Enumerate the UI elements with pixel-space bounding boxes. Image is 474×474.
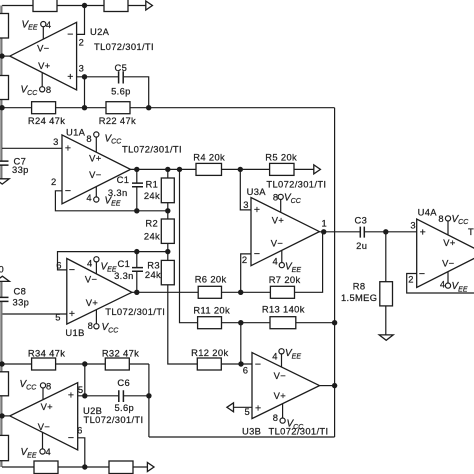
svg-text:3: 3 [79,63,84,74]
svg-text:TL072/301/TI: TL072/301/TI [84,414,144,425]
svg-text:5.6p: 5.6p [111,85,131,96]
svg-text:R6 20k: R6 20k [195,274,227,285]
wire U2A pin2 stub to top row [77,6,85,35]
wire outer right column [334,108,336,437]
resistor left edge 3 (cut off) [0,372,9,396]
svg-text:R8: R8 [353,281,366,292]
svg-text:3: 3 [53,136,58,147]
svg-text:4: 4 [87,258,92,269]
node R13 right on outer column [332,320,337,325]
svg-text:TL072/301/TI: TL072/301/TI [122,144,182,155]
svg-text:+: + [69,308,75,320]
node R11 R13 junction [238,320,243,325]
svg-text:TL072/301/TI: TL072/301/TI [105,306,165,317]
resistor R3 24k [161,260,174,284]
node U2A pin3 branch [82,74,87,79]
svg-text:1: 1 [321,218,326,229]
svg-text:C6: C6 [117,377,130,388]
svg-text:5: 5 [78,384,83,395]
resistor top row right (cut off) [104,0,128,12]
svg-text:8: 8 [46,84,51,95]
svg-text:V+: V+ [86,297,99,308]
node top row / U2A pin2 [82,3,87,8]
svg-text:2: 2 [408,273,413,284]
capacitor C8 33p plates [0,297,9,301]
svg-text:6: 6 [56,259,61,270]
svg-text:C1: C1 [117,174,130,185]
wire U3B output to outer column [320,385,335,387]
node C3 / R8 / U4A pin3 [383,229,388,234]
wire U2A pin3 down to R24 row [84,77,86,108]
output arrow after R5 [314,165,321,174]
svg-text:5: 5 [55,312,60,323]
svg-text:4: 4 [46,19,51,30]
node U1B output / C2 bottom [134,290,139,295]
op-amp U1A triangle [62,132,131,204]
svg-text:R13 140k: R13 140k [262,304,305,315]
svg-text:U1A: U1A [66,127,86,138]
svg-text:TL072/301/TI: TL072/301/TI [94,41,154,52]
node R24 R22 junction [82,105,87,110]
wire U2A apex to left column [2,55,10,57]
input arrow U3B pin5 [227,403,234,412]
svg-text:4: 4 [45,446,50,457]
wire R11 to R13 row [222,322,271,324]
resistor R22 47k [106,102,130,114]
ground under R8 [379,335,393,340]
resistor R24 47k [32,102,56,114]
wire left column lower segment [0,302,2,467]
node R2 R3 junction [165,249,170,254]
op-amp U2A triangle [10,22,77,92]
resistor left edge 1 (cut off) [0,14,9,39]
node U1A output / down column [177,167,182,172]
svg-text:8: 8 [46,380,51,391]
svg-text:2: 2 [79,37,84,48]
svg-text:33p: 33p [12,164,29,175]
wire U3A pin3 from R4 node [240,169,251,210]
svg-text:V+: V+ [89,153,102,164]
node U2B apex / left column [0,413,5,418]
wire U1B output row to R6 [132,291,198,293]
svg-text:4: 4 [86,192,91,203]
svg-text:R32 47k: R32 47k [102,348,139,359]
wire C1 column lower [136,187,138,211]
wire R4 to R5 [222,168,270,170]
resistor bottom row right (cut off) [109,461,133,474]
wire U3A output to C3 [319,231,360,233]
svg-text:TL072/301/TI: TL072/301/TI [269,425,329,436]
svg-text:V+: V+ [41,401,54,412]
svg-text:TL072/301/TI: TL072/301/TI [266,179,326,190]
op-amp U2B triangle [10,383,78,454]
ground under C7 [0,179,9,184]
resistor R13 140k [270,317,296,329]
svg-text:V−: V− [271,238,284,249]
svg-text:V−: V− [38,421,51,432]
svg-text:V+: V+ [272,215,285,226]
svg-text:−: − [69,264,75,276]
wire U3A pin2 loop to summing node [241,254,251,292]
svg-text:−: − [67,29,73,41]
svg-text:+: + [65,143,71,155]
wire R24 R22 row [2,107,335,109]
wire U1A output down to R11 [180,169,198,322]
node U1A output / C1 top [134,167,139,172]
wire R7 right up to U3A output [295,232,323,292]
svg-text:TL072/301/TI: TL072/301/TI [468,226,474,237]
wire R8 column upper [385,232,387,282]
wire U1A output row to R4 [131,168,197,170]
capacitor C6 5.6p plates [119,390,124,402]
svg-text:5.6p: 5.6p [114,402,134,413]
resistor R2 24k [161,219,174,243]
svg-text:8: 8 [438,213,443,224]
svg-text:24k: 24k [144,190,160,201]
node U2A apex / left column [0,53,5,58]
wire R8 column lower to ground [385,306,387,335]
svg-text:R24 47k: R24 47k [28,115,65,126]
resistor R5 20k [270,163,294,175]
inverted ground above C8 [0,276,9,281]
svg-text:24k: 24k [145,269,161,280]
wire U1A pin3 row [2,147,62,149]
svg-text:8: 8 [88,320,93,331]
svg-text:8: 8 [273,192,278,203]
wire C6 right to corner [124,395,149,397]
wire R6 to R7 summing node [222,291,271,293]
resistor bottom row left (cut off) [34,461,58,474]
svg-text:−: − [65,185,71,197]
wire U3B pin5 from input arrow [234,406,253,408]
svg-text:2: 2 [242,254,247,265]
wire C5 right to R22 row [124,77,149,108]
wire C8 top from inverted ground [0,281,2,297]
output arrow top row [146,1,153,10]
wire outer bottom run [149,436,335,438]
svg-text:R34 47k: R34 47k [28,348,65,359]
node C6 right branch [146,393,151,398]
op-amp U3A triangle [251,194,319,267]
svg-text:−: − [419,268,425,280]
wire U1B pin5 row [2,313,67,315]
svg-text:R22 47k: R22 47k [99,115,136,126]
node U3B output on outer column [332,383,337,388]
svg-text:R2: R2 [145,218,158,229]
resistor top row left (cut off) [33,0,57,12]
svg-text:5: 5 [244,406,249,417]
node C5 branch on R22 row [146,105,151,110]
wire U2B apex to left column [2,415,10,417]
svg-text:−: − [68,432,74,444]
op-amp U1B triangle [67,257,132,329]
svg-text:4: 4 [272,350,277,361]
wire C1 column upper [136,169,138,183]
wire U2B pin5 row to C6 [78,395,119,397]
node bottom row / U2B pin6 [82,464,87,469]
svg-text:8: 8 [273,412,278,423]
svg-text:2u: 2u [356,240,367,251]
wire C3 right to U4A pin3 [365,231,417,233]
resistor R8 1.5MEG [380,282,393,306]
svg-text:R12 20k: R12 20k [191,347,228,358]
resistor R12 20k [197,358,221,370]
resistor left edge 4 (cut off) [0,435,9,460]
svg-text:C5: C5 [115,62,128,73]
svg-text:U2A: U2A [90,26,110,37]
wire bottom output row [2,466,147,468]
svg-text:2: 2 [51,176,56,187]
wire R5 to output arrow [294,168,314,170]
op-amp U3B triangle [252,349,320,424]
svg-text:1.5MEG: 1.5MEG [341,292,378,303]
node left column / R34 row [0,361,5,366]
wire C2 column upper [136,252,138,268]
svg-text:V+: V+ [274,390,287,401]
wire left column upper segment [0,6,2,162]
wire C6 node down to bottom run [148,364,150,437]
resistor R6 20k [198,286,221,298]
svg-text:V−: V− [37,42,50,53]
resistor left edge 2 (cut off) [0,76,9,100]
wire C7 to ground [0,165,2,179]
svg-text:0: 0 [0,264,4,275]
wire C2 column lower [136,271,138,292]
resistor R4 20k [196,163,222,175]
svg-text:+: + [67,71,73,83]
wire U1B pin6 feedback loop row [58,252,168,270]
svg-text:V−: V− [442,258,455,269]
resistor R34 47k [32,358,56,370]
resistor R11 20k [198,317,222,329]
svg-text:+: + [420,226,426,238]
wire U2B pin5 up to R34 row [84,364,86,396]
node C1 bottom on feedback row [134,208,139,213]
capacitor C3 2u plates [360,227,364,238]
svg-text:V−: V− [85,274,98,285]
output arrow bottom row [147,463,154,472]
svg-text:3: 3 [410,220,415,231]
svg-text:+: + [255,403,261,415]
svg-text:6: 6 [243,364,248,375]
svg-text:3: 3 [243,199,248,210]
svg-text:−: − [254,248,260,260]
node U3A summing junction [238,290,243,295]
svg-text:R5 20k: R5 20k [265,152,297,163]
wire U2A pin3 row to C5 [77,76,119,78]
node R1 R2 junction on feedback row [165,208,170,213]
node left column / R24 row [0,105,5,110]
svg-text:R1: R1 [146,178,159,189]
svg-text:U3B: U3B [242,425,261,436]
svg-text:+: + [68,390,74,402]
wire R12 right to U3B pin6 [221,363,252,365]
wire top output row [2,5,146,7]
wire U2B pin6 stub to bottom row [78,438,85,467]
wire R1 R2 R3 column [168,169,198,364]
node U3A output pin1 [321,229,326,234]
svg-text:V−: V− [89,169,102,180]
node R4 / U3A pin3 branch [238,167,243,172]
svg-text:4: 4 [272,255,277,266]
node U1A output / R1 top [165,167,170,172]
svg-text:R11 20k: R11 20k [193,305,230,316]
svg-text:V+: V+ [38,60,51,71]
svg-text:U3A: U3A [247,186,267,197]
svg-text:C1: C1 [118,258,131,269]
svg-text:24k: 24k [144,231,160,242]
capacitor C1 3.3n plates [132,183,143,187]
svg-text:R4 20k: R4 20k [193,152,225,163]
svg-text:C8: C8 [14,286,27,297]
node R34 R32 junction [82,361,87,366]
svg-text:4: 4 [440,278,445,289]
resistor R1 24k [161,178,174,203]
svg-text:U4A: U4A [418,207,438,218]
node U2B pin5 / C6 row [82,393,87,398]
svg-text:33p: 33p [13,297,30,308]
svg-text:+: + [254,204,260,216]
svg-text:U1B: U1B [65,327,84,338]
svg-text:V−: V− [274,370,287,381]
capacitor C2 (C1) 3.3n plates [132,268,143,272]
svg-text:R7 20k: R7 20k [269,274,301,285]
node C2 top on U1B feedback row [134,249,139,254]
svg-text:C3: C3 [355,215,368,226]
svg-text:3.3n: 3.3n [108,187,128,198]
resistor R32 47k [105,358,129,370]
wire U4A pin2 loop exiting right [407,274,474,294]
wire R34 R32 row [2,363,149,365]
capacitor C5 5.6p plates [119,71,124,83]
node U3B summing junction [238,361,243,366]
wire R13 right to outer column [296,322,335,324]
svg-text:8: 8 [86,133,91,144]
wire R11 R13 node down to U3B pin6 node [240,323,242,364]
svg-text:−: − [255,359,261,371]
wire U1A pin2 feedback loop row [55,191,167,211]
op-amp U4A triangle (cut off at right edge) [417,216,474,288]
svg-text:3.3n: 3.3n [114,270,134,281]
resistor R7 20k [270,286,294,298]
svg-text:V+: V+ [443,237,456,248]
svg-text:6: 6 [77,425,82,436]
capacitor C7 33p plates [0,161,9,165]
